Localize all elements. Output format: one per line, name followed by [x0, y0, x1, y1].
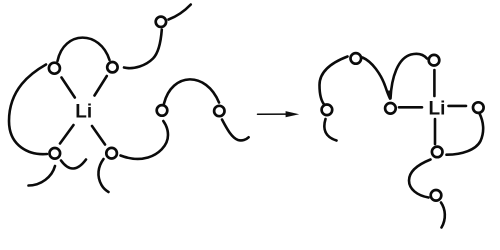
svg-text:Li: Li: [75, 102, 92, 123]
svg-text:Li: Li: [429, 99, 446, 120]
